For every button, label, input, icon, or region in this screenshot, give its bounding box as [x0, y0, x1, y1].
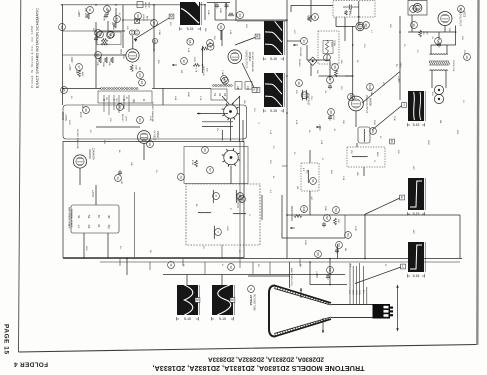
svg-text:M: M — [97, 215, 101, 218]
wire top audio stub — [290, 5, 292, 12]
svg-text:53: 53 — [346, 233, 350, 237]
scope waveform C — [264, 73, 284, 107]
junction k — [286, 112, 288, 114]
resistor 220K b — [101, 42, 108, 45]
wire stub — [115, 8, 117, 22]
scope tag H — [230, 298, 235, 303]
resistor audio grid — [344, 11, 347, 16]
wire drop brightness — [344, 215, 346, 238]
svg-text:45: 45 — [313, 15, 317, 19]
svg-text:.02: .02 — [431, 36, 433, 40]
scope tag C — [255, 88, 260, 93]
svg-text:5000: 5000 — [330, 42, 332, 48]
junction a — [61, 4, 63, 6]
svg-text:B: B — [256, 35, 258, 39]
node ref 44b — [301, 206, 308, 213]
wire audio B+ rail — [408, 31, 456, 33]
crt neck lead 6 — [366, 287, 368, 304]
node ref 64 — [137, 72, 144, 79]
wire sound link — [319, 75, 352, 77]
wire sync stub — [235, 0, 237, 21]
svg-text:47: 47 — [328, 78, 332, 82]
svg-text:.01: .01 — [118, 12, 120, 16]
svg-text:B1: B1 — [195, 204, 197, 207]
node ref 62 — [108, 31, 115, 38]
svg-text:10K: 10K — [84, 8, 86, 12]
node ref 68 — [187, 38, 194, 45]
flyback winding — [221, 130, 224, 140]
node ref 35 — [107, 32, 114, 39]
svg-text:AUDIO OUTPUT: AUDIO OUTPUT — [459, 8, 462, 27]
scope waveform H — [212, 285, 234, 315]
wire into horiz osc tube — [132, 36, 134, 50]
svg-text:CD: CD — [246, 86, 250, 90]
wire damper lead — [79, 168, 81, 185]
wire boost arrow — [197, 113, 228, 115]
wire volume feed — [287, 40, 301, 42]
tube V6 video output 6AW8A — [349, 96, 364, 111]
wire vertical to cage — [162, 88, 164, 105]
svg-text:VOLUME: VOLUME — [299, 47, 301, 57]
wire bus stub 1 — [119, 259, 121, 267]
svg-text:73: 73 — [179, 175, 183, 179]
wire crt feed — [329, 259, 331, 285]
svg-text:11: 11 — [130, 31, 134, 34]
wire to scope H — [221, 275, 223, 286]
svg-text:180K: 180K — [102, 62, 104, 67]
svg-text:150: 150 — [115, 98, 117, 101]
svg-text:47: 47 — [321, 158, 323, 161]
wire strip lead 3 — [113, 95, 115, 110]
ion trap adjust arrow — [396, 285, 399, 331]
resistor 470K — [87, 13, 90, 19]
node ref 49 — [296, 80, 303, 87]
wire grid feed drop — [289, 262, 291, 288]
junction n — [364, 258, 366, 260]
capacitor .01 — [328, 84, 332, 90]
crt base connector — [373, 304, 394, 319]
svg-text:19: 19 — [465, 55, 469, 59]
svg-text:T: T — [216, 231, 220, 233]
svg-text:66: 66 — [136, 14, 140, 18]
svg-text:50: 50 — [334, 208, 338, 212]
svg-text:DO NOT MEASURE: DO NOT MEASURE — [251, 52, 254, 72]
node ref 47 — [327, 77, 334, 84]
wire hv rect lead — [143, 144, 145, 161]
svg-text:3.2: 3.2 — [462, 100, 464, 104]
svg-text:68: 68 — [188, 40, 192, 44]
svg-text:52: 52 — [325, 216, 329, 220]
svg-text:220: 220 — [340, 86, 342, 90]
wire stub 40b — [221, 30, 223, 46]
capacitor 680 — [94, 36, 98, 42]
svg-text:BOOST: BOOST — [61, 112, 64, 121]
svg-text:DO NOT MEASURE: DO NOT MEASURE — [76, 129, 79, 149]
wire to sound det — [336, 26, 355, 28]
svg-text:10K: 10K — [342, 120, 344, 124]
svg-text:140V: 140V — [398, 62, 400, 68]
wire scope lead A — [134, 17, 172, 40]
svg-text:470K: 470K — [84, 13, 86, 19]
junction e — [204, 4, 206, 6]
horiz hold box — [137, 2, 143, 8]
wire socket right 2 — [242, 120, 244, 142]
svg-text:1.5M: 1.5M — [158, 30, 160, 35]
svg-text:250V: 250V — [122, 54, 124, 59]
svg-text:49: 49 — [297, 81, 301, 85]
svg-text:TONE: TONE — [333, 40, 335, 47]
svg-text:43: 43 — [238, 13, 242, 17]
svg-text:A2B2 (20KV+PIX): A2B2 (20KV+PIX) — [290, 268, 293, 286]
svg-text:14: 14 — [153, 39, 157, 43]
yoke ref P — [213, 193, 220, 200]
svg-text:24: 24 — [140, 81, 144, 85]
ref bus b — [228, 264, 235, 271]
wire scope lead B — [235, 37, 258, 46]
wire board lead 1 — [83, 233, 85, 259]
svg-text:.5: .5 — [257, 122, 259, 125]
wire audio det drop — [358, 1, 360, 26]
svg-text:40: 40 — [219, 25, 223, 29]
resistor brightness — [294, 215, 302, 218]
wire stub r32b — [107, 21, 109, 31]
yoke ref T — [215, 229, 222, 236]
wire tone stub — [310, 0, 312, 17]
sound coil 600b — [305, 90, 308, 100]
svg-text:600: 600 — [431, 92, 433, 96]
svg-text:150K: 150K — [135, 65, 137, 70]
scope lead A arrowhead — [134, 39, 137, 42]
svg-text:60~: 60~ — [119, 246, 121, 250]
node ref 40 — [218, 24, 225, 31]
wire audio box lead 1 — [335, 17, 337, 27]
node ref 16 — [411, 22, 418, 29]
svg-text:2.5V: 2.5V — [348, 290, 350, 295]
svg-text:47K: 47K — [126, 26, 128, 30]
svg-text:56K: 56K — [204, 28, 206, 32]
link label box 2 — [245, 82, 252, 89]
svg-text:2.2M: 2.2M — [221, 70, 223, 75]
svg-text:Printed: W. Stores & Co., Inc.: Printed: W. Stores & Co., Inc. 1958 — [30, 26, 34, 88]
node ref 55 — [239, 196, 246, 203]
svg-text:39K: 39K — [108, 62, 110, 66]
wire board lead 2 — [107, 233, 109, 259]
brightness arrow — [290, 227, 295, 229]
resistor hv — [195, 160, 198, 167]
svg-text:5KV: 5KV — [412, 230, 414, 235]
node ref 41 — [207, 40, 214, 47]
ref tone — [324, 54, 331, 61]
wire scope lead D — [372, 105, 403, 131]
ref 14 — [152, 38, 157, 43]
svg-text:B+: B+ — [395, 64, 397, 68]
wire t1 sec lead 2 — [445, 71, 447, 89]
svg-text:120: 120 — [169, 22, 171, 26]
svg-text:(9): (9) — [132, 99, 136, 102]
wire bus stub 3 — [182, 259, 184, 267]
capacitor c40 — [215, 3, 219, 9]
node ref 29 — [370, 128, 377, 135]
svg-text:.047: .047 — [120, 180, 122, 185]
wire left vertical 2 — [95, 22, 97, 88]
svg-text:12: 12 — [384, 264, 386, 267]
svg-text:350: 350 — [350, 150, 352, 154]
svg-text:3.3K: 3.3K — [187, 48, 189, 53]
svg-text:TRUETONE MODELS 2D1830A, 2D183: TRUETONE MODELS 2D1830A, 2D1831A, 2D1832… — [153, 364, 365, 373]
wire strip lead 5 — [123, 95, 125, 109]
svg-text:82K: 82K — [157, 60, 159, 64]
node ref 23 — [137, 117, 144, 124]
svg-text:33b: 33b — [368, 84, 372, 89]
tube V4 damper 12AX4GTA — [73, 155, 86, 168]
svg-text:HOLD: HOLD — [147, 2, 149, 8]
yoke coil 4 — [233, 212, 246, 215]
svg-text:6CU8A: 6CU8A — [152, 44, 155, 52]
svg-text:500: 500 — [205, 68, 207, 72]
node ref 66 — [135, 13, 142, 20]
crt neck lead 5 — [362, 266, 364, 304]
svg-text:100K: 100K — [324, 206, 326, 211]
svg-text:39K: 39K — [356, 172, 358, 176]
svg-text:29: 29 — [371, 129, 375, 133]
wire into vert output — [96, 54, 126, 56]
tube V5 hv rect 1B3GT — [138, 131, 151, 144]
svg-text:DAMPER: DAMPER — [88, 149, 91, 160]
svg-text:27K: 27K — [109, 118, 111, 122]
svg-text:4.5: 4.5 — [302, 168, 304, 172]
svg-text:1V: 1V — [379, 136, 381, 139]
svg-text:22: 22 — [118, 105, 122, 109]
svg-text:31: 31 — [88, 8, 92, 12]
svg-text:A1: A1 — [118, 150, 121, 153]
junction l — [286, 214, 288, 216]
terminal board lugs row 2 — [77, 225, 111, 230]
svg-text:2A: 2A — [299, 264, 302, 267]
svg-text:X2: X2 — [155, 170, 157, 173]
svg-text:5-15: 5-15 — [413, 274, 420, 278]
wire corner — [204, 5, 206, 20]
svg-text:270V: 270V — [124, 116, 126, 122]
svg-text:F: F — [254, 88, 256, 92]
svg-text:AB: AB — [236, 86, 240, 90]
scope waveform D — [408, 91, 425, 121]
IF terminal board — [98, 91, 152, 103]
node ref 17 — [410, 6, 417, 13]
wire afc link — [123, 19, 154, 21]
junction v — [455, 31, 457, 33]
crt neck lead 2 — [352, 266, 354, 304]
node ref 65 — [61, 87, 68, 94]
svg-text:2.2K: 2.2K — [269, 130, 271, 135]
tone control dashed box — [318, 31, 339, 64]
svg-text:33: 33 — [70, 96, 72, 99]
centering adjust arrow — [322, 318, 324, 333]
scope tag B — [255, 34, 260, 39]
scope waveform E — [408, 178, 425, 210]
volume arrow — [293, 44, 298, 46]
svg-text:9: 9 — [249, 288, 253, 290]
svg-text:13: 13 — [116, 176, 120, 180]
svg-text:S1: S1 — [213, 93, 217, 97]
resistor 180K — [105, 57, 108, 63]
resistor 10K — [99, 57, 102, 63]
resistor 150 1W — [419, 30, 422, 37]
svg-text:64: 64 — [138, 73, 142, 77]
phono jack diamond — [309, 57, 317, 65]
power transformer terminal board — [71, 205, 119, 233]
node ref 33 — [114, 16, 121, 23]
wire B+ vertical right — [399, 16, 401, 100]
wire stub phono — [310, 64, 312, 76]
yoke coil 1 — [212, 190, 215, 203]
svg-text:40: 40 — [403, 44, 405, 47]
scope waveform F — [408, 242, 425, 272]
deflection yoke box — [186, 184, 260, 245]
svg-text:5-15: 5-15 — [187, 27, 194, 31]
wire out grid — [63, 54, 96, 56]
wire t1 pri lead 1 — [430, 45, 432, 55]
svg-text:655: 655 — [340, 60, 342, 64]
scope scale note 5-15 — [408, 123, 425, 127]
svg-text:180K: 180K — [219, 8, 221, 14]
svg-text:4MH: 4MH — [376, 152, 378, 157]
sound board text — [213, 93, 227, 97]
capacitor .047 b — [322, 222, 326, 228]
svg-text:52: 52 — [87, 215, 91, 219]
svg-text:33: 33 — [115, 17, 119, 21]
junction i — [286, 19, 288, 21]
terminal board lugs row 1 — [77, 215, 111, 219]
scope waveform G — [177, 285, 199, 315]
wire audio in — [344, 17, 346, 41]
capacitor .047 — [104, 13, 108, 19]
wire vertical drop 2 — [281, 195, 283, 238]
svg-text:PHONO: PHONO — [298, 59, 300, 67]
svg-text:47: 47 — [221, 264, 223, 267]
svg-text:15K: 15K — [337, 219, 339, 223]
node ref 22 — [117, 104, 124, 111]
svg-text:3.9K: 3.9K — [229, 30, 231, 35]
wire main B+ bus — [63, 258, 462, 260]
node ref 48 — [363, 22, 370, 29]
wire vert osc feed — [153, 5, 155, 88]
wire vert lin drop — [202, 46, 204, 73]
wire into socket a — [222, 96, 229, 104]
svg-text:1.8K: 1.8K — [81, 104, 83, 109]
node ref 43 — [237, 12, 244, 19]
resistor vert lin — [201, 47, 208, 50]
svg-text:470K: 470K — [102, 16, 104, 21]
svg-text:250V: 250V — [193, 57, 195, 62]
svg-text:5-15: 5-15 — [413, 212, 420, 216]
svg-text:100K: 100K — [207, 10, 209, 15]
svg-text:39: 39 — [148, 142, 152, 146]
wire stub video — [282, 165, 287, 167]
junction r — [202, 64, 204, 66]
ref 12 — [134, 30, 139, 35]
svg-text:HORIZ: HORIZ — [144, 2, 146, 9]
wire cage mid drop — [134, 192, 136, 258]
yoke coil 3 — [198, 211, 211, 214]
svg-text:5.6: 5.6 — [269, 190, 271, 194]
node ref 13 — [115, 175, 122, 182]
junction b — [95, 4, 97, 6]
wire stub 58 — [337, 244, 339, 259]
svg-text:56: 56 — [308, 130, 310, 133]
svg-text:J2: J2 — [373, 160, 375, 163]
junction t — [352, 44, 354, 46]
svg-text:6AW8A: 6AW8A — [368, 98, 371, 106]
svg-text:FU: FU — [257, 264, 259, 267]
svg-text:5-15: 5-15 — [270, 57, 277, 61]
svg-text:150V: 150V — [373, 120, 375, 125]
node ref 44 — [301, 38, 308, 45]
node ref 28 — [328, 109, 335, 116]
wire t1 pri lead 2 — [446, 45, 448, 55]
audio transformer T1 secondary — [430, 69, 448, 72]
svg-text:499K: 499K — [112, 25, 114, 30]
scope tag G — [195, 298, 200, 303]
svg-text:2%: 2% — [238, 250, 240, 253]
vert osc grid box — [97, 32, 121, 45]
svg-text:58: 58 — [316, 252, 320, 256]
node ref 38 — [83, 107, 90, 114]
wire scope lead F — [355, 267, 403, 284]
svg-text:M: M — [97, 225, 101, 228]
svg-text:R: R — [229, 208, 231, 210]
strip ref 24 — [139, 79, 146, 86]
svg-text:270: 270 — [363, 44, 365, 48]
svg-text:+135V: +135V — [68, 64, 70, 71]
deflection adjust arrow up — [300, 288, 302, 298]
tube V9 audio amp — [413, 3, 422, 12]
svg-text:33K: 33K — [448, 28, 450, 32]
flyback shield box — [184, 147, 248, 184]
svg-text:4.7: 4.7 — [370, 30, 372, 34]
node ref 63 — [95, 52, 102, 59]
svg-text:300K: 300K — [307, 15, 309, 20]
wire socket to yoke — [230, 166, 232, 185]
svg-text:62: 62 — [109, 33, 113, 37]
svg-text:2W: 2W — [75, 70, 77, 74]
boost arrow head — [197, 112, 201, 114]
link label box 1 — [235, 82, 242, 89]
svg-text:56: 56 — [203, 148, 207, 152]
sound terminal board — [211, 89, 227, 100]
svg-text:71: 71 — [169, 263, 173, 267]
junction m — [329, 258, 331, 260]
wire focus 1 — [202, 121, 233, 123]
wire cap chain top — [207, 2, 230, 4]
sound take-off dashed box — [347, 147, 385, 167]
node ref 36 — [151, 20, 158, 27]
svg-text:125V: 125V — [68, 120, 70, 125]
wire bus stub 7 — [299, 259, 301, 267]
node ref 18 — [458, 6, 465, 13]
wire strip link — [152, 88, 211, 90]
node ref 19 — [464, 54, 471, 61]
wire scope lead C — [242, 63, 255, 89]
ref 11 — [129, 30, 134, 35]
IF terminal strip circles — [101, 88, 139, 90]
scope scale note 5-15 — [264, 57, 284, 61]
wire scope lead E — [365, 198, 402, 215]
svg-text:17: 17 — [411, 7, 415, 11]
yoke ref U — [237, 193, 244, 200]
capacitor 1500 — [328, 115, 332, 121]
wire brightness rail — [282, 237, 345, 239]
node ref 46 — [332, 64, 339, 71]
